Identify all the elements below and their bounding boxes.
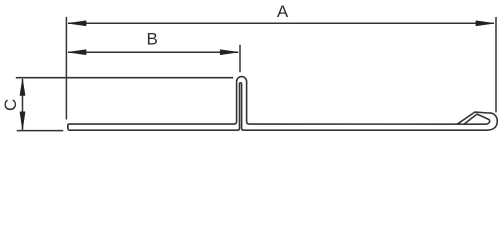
profile top surface: left cap fillet, pan, rib outer fold, pan, nose inner curl, inner return diagonal: [68, 77, 490, 129]
dimension B arrow right: [220, 50, 238, 55]
extension line B right (at rib): [239, 45, 241, 72]
dimension B line: [68, 51, 238, 53]
dimension C arrow bottom: [20, 112, 25, 130]
svg-text:A: A: [277, 2, 289, 21]
dimension C arrow top: [20, 79, 25, 96]
extension line right (hook right end): [495, 17, 497, 112]
extension line left (profile left end): [65, 17, 67, 120]
top reference line (rib height datum): [16, 77, 233, 79]
dimension C line: [22, 79, 24, 130]
dimension A line: [68, 22, 494, 24]
dimension A arrow left: [68, 21, 86, 26]
extension line C bottom: [17, 130, 64, 132]
dimension B arrow left: [68, 50, 86, 55]
svg-text:C: C: [1, 99, 20, 111]
profile bottom surface: left cap, pan, rib inner seam, pan, nose outer curl, outer return diagonal: [68, 83, 498, 130]
svg-text:B: B: [147, 30, 158, 49]
dimension A arrow right: [476, 21, 494, 26]
